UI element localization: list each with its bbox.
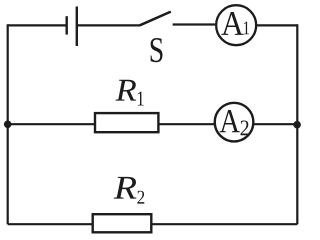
wire A1 to top-right corner xyxy=(256,24,297,26)
label A1 subscript 1 xyxy=(244,22,249,35)
ammeter A2 circle xyxy=(215,103,254,142)
wire left vertical xyxy=(7,24,9,224)
switch S lever xyxy=(140,12,171,26)
label S xyxy=(151,38,163,62)
wire R1 to A2 xyxy=(158,123,214,125)
long plate xyxy=(76,7,78,47)
resistor R1 box xyxy=(95,113,158,132)
ammeter A1 circle xyxy=(216,5,256,45)
label A2 letter A xyxy=(220,110,240,132)
label R1 letter R xyxy=(115,80,136,101)
label R2 subscript 2 xyxy=(137,191,144,204)
node junction dot left xyxy=(4,121,12,129)
label R2 letter R xyxy=(114,177,137,199)
wire middle branch: left dot to R1 xyxy=(8,123,95,125)
short plate xyxy=(65,16,67,34)
wire top-left segment xyxy=(8,24,67,26)
wire battery to switch hinge xyxy=(77,24,140,26)
label A1 letter A xyxy=(221,12,243,35)
label A2 subscript 2 xyxy=(240,120,248,135)
resistor R2 box xyxy=(93,214,152,232)
wire switch contact to ammeter A1 xyxy=(173,23,216,25)
wire bottom: left to R2 xyxy=(8,223,93,225)
label R1 subscript 1 xyxy=(138,92,144,106)
node junction dot right xyxy=(293,121,301,129)
battery (cell) xyxy=(67,7,77,47)
wire R2 to bottom-right corner xyxy=(151,223,297,225)
wire right vertical xyxy=(296,24,298,224)
wire A2 to right dot xyxy=(253,123,297,125)
